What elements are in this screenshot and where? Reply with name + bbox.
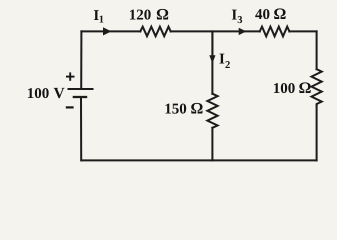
svg-text:40: 40 bbox=[255, 7, 270, 23]
wire: right branch lower bbox=[316, 105, 318, 160]
resistor R2 40 ohm zigzag bbox=[260, 27, 290, 37]
wire: left branch upper (to battery top plate) bbox=[80, 31, 82, 89]
paper background bbox=[0, 0, 337, 173]
current arrow I2 head bbox=[209, 55, 215, 63]
svg-text:Ω: Ω bbox=[156, 6, 168, 23]
svg-text:150: 150 bbox=[164, 102, 187, 118]
resistor R3 150 ohm zigzag bbox=[207, 94, 217, 128]
wire: middle branch upper bbox=[211, 31, 213, 93]
wire: right branch upper bbox=[316, 31, 318, 69]
battery V1 top plate (long, +) bbox=[68, 88, 94, 90]
battery V1 bottom plate (short, -) bbox=[73, 96, 88, 98]
current arrow I3 head bbox=[239, 28, 247, 35]
wire: left branch lower (from battery bottom plate) bbox=[80, 97, 82, 160]
wire: top left segment bbox=[81, 30, 140, 32]
svg-text:2: 2 bbox=[225, 60, 230, 71]
svg-text:Ω: Ω bbox=[274, 6, 286, 23]
wire: top middle segment bbox=[171, 30, 260, 32]
battery minus sign bbox=[66, 106, 74, 108]
svg-text:Ω: Ω bbox=[191, 101, 203, 118]
resistor R4 100 ohm zigzag bbox=[312, 69, 322, 105]
svg-text:100: 100 bbox=[27, 86, 50, 102]
svg-text:3: 3 bbox=[237, 15, 242, 26]
wire: bottom bbox=[81, 159, 316, 161]
resistor R1 120 ohm zigzag bbox=[140, 27, 170, 37]
svg-text:1: 1 bbox=[99, 15, 104, 26]
current arrow I1 head bbox=[103, 27, 111, 35]
battery plus sign bbox=[66, 72, 75, 80]
svg-text:100: 100 bbox=[273, 81, 296, 97]
svg-text:V: V bbox=[54, 85, 66, 102]
wire: top right segment bbox=[289, 30, 316, 32]
current arrow I2 stem bbox=[211, 32, 213, 56]
wire: middle branch lower bbox=[211, 128, 213, 161]
svg-text:Ω: Ω bbox=[299, 80, 311, 97]
svg-text:120: 120 bbox=[129, 7, 152, 23]
